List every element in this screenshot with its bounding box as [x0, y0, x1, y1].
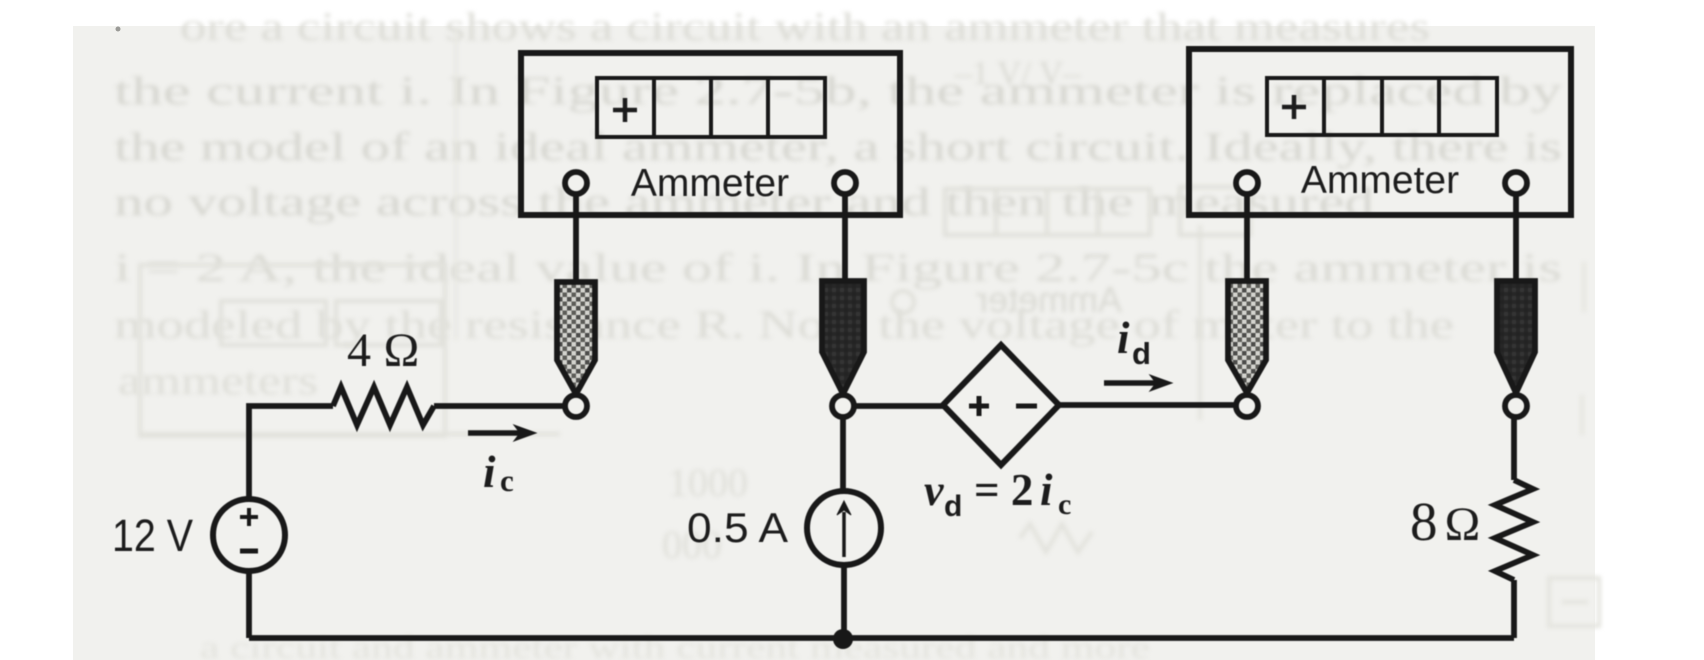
svg-text:v: v: [924, 466, 944, 515]
probe P4 (dark): [1497, 281, 1535, 393]
scan speck: [116, 27, 121, 32]
svg-text:–1 V/ V–: –1 V/ V–: [954, 55, 1081, 92]
probe P3 (checkered): [1228, 281, 1266, 393]
svg-text:i: i: [483, 447, 496, 497]
ammeter U2 terminal 1: [1236, 172, 1258, 194]
svg-text:0.5 A: 0.5 A: [687, 504, 788, 551]
node C: [1236, 395, 1258, 417]
svg-text:a circuit and ammeter with cur: a circuit and ammeter with current measu…: [200, 629, 1150, 660]
probe P1 (checkered): [557, 282, 595, 394]
arrow for i_d: [1104, 375, 1172, 391]
I1 arrow: [837, 501, 851, 557]
ammeter U1 terminal 1: [565, 172, 587, 194]
wire: U2 terminal 1 to probe: [1244, 194, 1250, 281]
voltage source V1 12V: [213, 499, 285, 571]
svg-text:d: d: [944, 490, 962, 523]
junction dot: [833, 629, 853, 649]
svg-text:Ammeter: Ammeter: [976, 279, 1122, 320]
current source I1 0.5A: [807, 491, 881, 565]
svg-text:ammeters: ammeters: [118, 358, 318, 403]
svg-text:the current i. In Figure 2.7-5: the current i. In Figure 2.7-5b, the amm…: [114, 68, 1562, 113]
node B: [832, 395, 854, 417]
wire: U1 terminal 2 to probe: [842, 194, 848, 281]
wire: right riser below 8ohm: [1511, 580, 1517, 638]
ghost faint box/line shapes: [140, 27, 1599, 626]
ammeter U1 terminal 2: [834, 172, 856, 194]
wire: 0.5A source to bottom junction: [841, 564, 847, 638]
D1 plus sign: [969, 396, 989, 416]
svg-text:8: 8: [1410, 491, 1438, 552]
V1 minus sign: [240, 549, 258, 554]
wire: 12V bottom to bottom rail: [246, 571, 252, 638]
svg-text:Ammeter: Ammeter: [631, 162, 789, 205]
resistor R 8ohm vertical zigzag: [1495, 480, 1533, 580]
ammeter U1 display window: [597, 78, 825, 137]
U1 display plus: [613, 98, 637, 122]
svg-text:Ω: Ω: [1444, 498, 1481, 551]
wire: U2 terminal 2 to probe: [1513, 194, 1519, 281]
dependent source D1 diamond: [943, 345, 1059, 465]
svg-text:d: d: [1132, 336, 1151, 371]
svg-text:Ammeter: Ammeter: [1301, 159, 1459, 202]
wire: 8ohm top to node D: [1511, 418, 1517, 480]
svg-text:i: i: [1040, 465, 1053, 515]
wire: resistor to node A: [434, 403, 565, 409]
svg-text:4 Ω: 4 Ω: [347, 324, 420, 377]
svg-text:c: c: [1058, 488, 1071, 521]
ammeter U2 terminal 2: [1505, 172, 1527, 194]
U2 display plus: [1282, 95, 1306, 119]
svg-text:= 2: = 2: [974, 465, 1033, 515]
probe P2 (dark): [822, 281, 864, 394]
node A: [565, 395, 587, 417]
V1 plus sign: [240, 508, 258, 526]
svg-text:i: i: [1117, 313, 1130, 363]
ammeter U2 display window: [1267, 78, 1497, 135]
ammeter U2 box: [1189, 49, 1571, 215]
svg-text:c: c: [500, 463, 514, 498]
svg-text:12 V: 12 V: [112, 510, 193, 561]
svg-text:1000: 1000: [668, 460, 748, 505]
D1 minus sign: [1016, 404, 1037, 409]
ammeter U1 box: [521, 53, 900, 215]
node D: [1505, 395, 1527, 417]
svg-text:ore a circuit shows a circuit: ore a circuit shows a circuit with an am…: [180, 4, 1430, 49]
wire: U1 terminal 1 to probe: [573, 194, 579, 282]
wire: top-left corner from 12V up and right to resistor: [249, 406, 333, 502]
wire: bottom rail: [249, 635, 1514, 641]
resistor R 4ohm zigzag: [333, 387, 434, 425]
wire: node B to diamond: [855, 403, 943, 409]
wire: node B down to 0.5A source: [840, 418, 846, 492]
arrow for i_c: [468, 425, 536, 441]
wire: diamond to node C: [1059, 402, 1235, 408]
